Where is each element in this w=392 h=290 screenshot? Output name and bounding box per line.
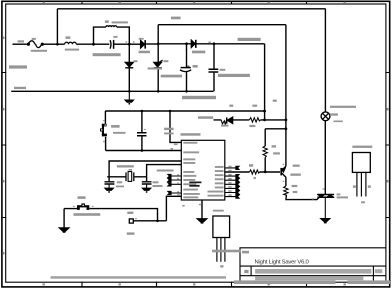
label GND tick [182,205,185,207]
label PKG1 name [220,265,223,267]
value label P1 [127,232,135,234]
label PKG2 top [352,146,372,148]
wire AC line input [13,43,27,45]
wire fuse to junction [43,43,58,45]
wire VDD loop right drop [285,25,287,167]
junction node dots top section [56,43,59,46]
arrow flag ARW3 [321,219,330,223]
title block doc number bar [255,269,371,274]
zener diode D4 [154,62,162,67]
connector pad P1 [129,219,133,223]
wire top loop across [57,8,325,10]
label live node [238,38,261,41]
IC U1 PIC16F628 [181,140,225,200]
wire LC filter right riser [117,27,130,44]
border zone number labels [43,2,45,4]
triac Q2 [317,194,334,196]
capacitor C7 plates [142,182,152,184]
value label R7 [273,152,280,154]
resistor R7 [263,146,267,158]
wire pullup drop [264,129,266,146]
IC U1 right pin name text rows [215,166,224,168]
wire Q1 emitter [285,177,287,186]
value label C5 [164,133,174,135]
label R7 [272,145,277,147]
pin 4 tick [171,148,174,150]
value label SW1 [74,213,101,216]
wire IC pin to start button net [166,196,181,221]
title block outline [240,248,386,282]
wire node A to C1 [94,43,110,45]
capacitor C1 straight plate [113,40,115,49]
wire SW1 ground drop [63,209,65,228]
pushbutton SW2 reset [100,124,107,137]
label below IC pin 5 [213,210,224,212]
label SW2 [111,125,120,128]
IC U1 right pin stubs [225,168,236,197]
label lamp line 2 [330,113,338,115]
value label D1 [139,51,151,54]
value label R5 [249,125,255,127]
TO-92 package drawing PKG1 [213,216,230,262]
value label SW2 [113,132,126,134]
value label Q2 [337,196,349,198]
diode D5 [228,117,233,123]
wire D1 to zener node [146,43,158,45]
pin tick IC bottom left [177,194,180,196]
border zone ticks top [82,1,307,4]
wire top loop riser at junction [56,9,58,44]
polarity mark C3 [187,66,189,68]
capacitor C4 plates [209,69,219,72]
capacitor C3 straight plate [181,67,191,69]
fuse F1 [27,41,43,48]
value label L1 [65,49,79,51]
resistor R6 [250,170,260,174]
junction dot start net [156,220,159,223]
label C7 [153,181,159,183]
label PKG1 band [212,250,240,253]
wire C3 branch [186,44,188,92]
label Q2 [337,194,341,196]
wire C4 branch [213,44,215,92]
pin ticks SW1 [73,206,75,207]
label above VDD loop [171,17,181,20]
wire C1 to node B [114,43,130,45]
label SW1 [78,196,86,199]
title block small label [242,251,249,254]
wire VDD loop top [158,24,286,26]
value label fuse [31,50,47,52]
wire reset button to W1 [105,137,107,151]
bottom zone text band [234,280,336,284]
wire VDD loop riser [157,25,159,44]
label U1 [181,133,201,136]
resistor R8 [284,186,288,195]
wire triac to arrow [324,198,326,219]
wire node B to D1 [129,43,140,45]
value label D3 [192,51,205,54]
label Q1 [293,165,300,167]
title block rev cell bar [375,269,383,273]
pushbutton SW1 start [77,203,89,210]
title block date bar [255,277,363,281]
label D4 zener [164,60,169,62]
IC U1 highlighted text bars [189,182,201,184]
junction dots mid section [141,110,144,113]
IC U1 left pin name text rows [183,142,197,144]
value label Q1 [290,174,300,176]
value label C7 [153,185,163,187]
wire start pad row [133,220,166,222]
label below rail [182,96,216,99]
wire VDD rail mid [105,110,264,112]
wire crystal row [107,176,147,178]
wire IC pin to R6 [225,171,250,173]
value label C1 [93,53,121,56]
capacitor C3 curved plate [180,70,191,72]
label lamp line 1 [330,106,356,108]
label C3 [193,65,198,68]
wire zener branch down [157,44,159,92]
pin ticks IC left arrow pins [177,174,179,175]
diode D3 [191,40,195,48]
wire LC filter left riser [94,27,106,44]
pin tick C5 [144,129,146,130]
TO-92 package drawing PKG2 [352,153,370,197]
label C5 [164,128,174,130]
wire junction to L1 [57,43,64,45]
crystal X1 [125,172,127,181]
wire IC osc pin B [147,165,182,177]
wire main right end drop [264,44,266,120]
capacitor C6 plates [105,182,115,184]
pin number dots D1 [125,41,127,42]
border zone ticks right [386,73,390,218]
label C1 [113,36,117,38]
pin tick triac top [323,188,325,189]
ground GND3 [146,184,148,188]
net label pin row [157,170,174,172]
pin 14 tick [174,144,178,146]
wire SW1 row [64,209,157,221]
label P1 [127,212,133,214]
value label L2 [112,21,128,23]
diode D2 [125,62,133,67]
IC U1 left pin arrowheads [168,174,171,177]
inductor L1 [65,42,77,44]
junction dots row B [263,119,266,122]
fuse F1 terminal dots [27,43,30,46]
wire R6 to Q1 base [260,171,281,173]
net label row B [198,116,213,119]
IC pin number ticks right [228,166,231,168]
label X1 [129,169,132,171]
wire branch to pullup [265,128,286,130]
pin tick gate [312,198,314,199]
IC U1 ground pin wire [201,200,203,219]
label F1 [32,38,36,40]
wire W1 reset line to IC [106,150,182,152]
value label C4 [218,74,250,77]
resistor R5 [249,118,260,122]
pin tick R6 [254,177,256,179]
label AC source [9,65,27,68]
border zone ticks left [2,73,6,218]
ground GND2 [108,184,110,188]
value label D4 [148,68,162,70]
wire L1 to node A [76,43,93,45]
label C6 [117,181,122,183]
bottom note text line [51,276,227,279]
label R8 [292,185,298,187]
wire IC osc pin A [109,161,181,177]
wire VDD to IC pin 14 [170,111,181,142]
label D1 [139,38,144,40]
label D2 [134,60,138,62]
label neutral N [14,87,26,89]
wire lamp feed down [324,9,326,113]
label C4 [220,69,226,71]
diode D1 [141,40,145,48]
wire R8 to triac gate [286,195,319,199]
labels PKG2 pins [353,185,356,187]
pin tick D3 [208,42,210,44]
label mains L [18,40,24,42]
inductor/link small zigzag [221,120,226,125]
arrow flag ARW2 [197,219,206,223]
IC U1 left input pin stubs [171,176,181,193]
wire main line right section [158,43,264,45]
arrow flag ARW1 [60,228,69,232]
svg-text:Night Light Saver V6.0: Night Light Saver V6.0 [255,260,310,266]
ground symbol GND1 [128,91,130,100]
IC U1 right pin arrowheads [236,166,239,169]
inductor L2 (parallel with C1) [106,26,117,27]
capacitor C1 curved plate [109,40,112,48]
pin ticks SW2 [103,120,105,121]
label L2 [105,20,109,23]
transistor Q1 PNP [280,168,282,176]
value label zigzag [221,125,229,127]
value label R8 [293,191,298,193]
pin number tick IC bottom [199,204,201,205]
wire D2 branch down [128,44,130,91]
capacitor C7 wire [146,177,148,181]
pin number dots rail A [229,105,233,107]
value label C6 [116,186,124,188]
capacitor C6 wire [108,177,110,181]
value label X1 [117,165,134,167]
title block size letter [244,270,248,273]
border zone ticks bottom [82,282,307,287]
wire net row B [214,119,286,121]
wire reset button drop [104,111,106,124]
value label C3 [161,75,182,78]
wire R7 to base row [264,158,266,172]
wire neutral rail [11,90,213,92]
pin tick P1 [135,218,137,219]
lamp LP1 [321,112,330,121]
wire lamp to triac [324,120,326,194]
label L1 [66,36,71,39]
label lamp line 3 [333,121,342,123]
capacitor C5 wires [141,111,143,151]
capacitor C5 plates [137,133,147,136]
label R6 [249,164,253,167]
tiny label right of drop [273,100,277,102]
